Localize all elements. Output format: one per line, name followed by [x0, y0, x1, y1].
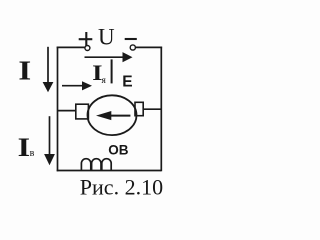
wire: top-left rail from frame corner to + terminal [57, 46, 85, 48]
svg-text:в: в [30, 148, 35, 159]
svg-text:E: E [122, 73, 132, 90]
wire: top-right rail from - terminal to right corner [135, 46, 162, 48]
svg-text:I: I [18, 133, 30, 162]
svg-text:ОВ: ОВ [108, 142, 129, 157]
wire: bottom rail [57, 170, 162, 172]
svg-text:I: I [18, 56, 31, 86]
wire: right brush to right rail [143, 108, 161, 110]
brush left (rect) [76, 104, 89, 119]
armature rotation arrow (left) [96, 111, 130, 120]
terminal - (circle) [130, 45, 135, 50]
annotation arrow into armature (right) [62, 81, 92, 90]
armature M (ellipse) [88, 95, 137, 135]
current arrow I_v (down, lower left) [44, 116, 55, 165]
current arrow I_ya (right, below U) [85, 52, 133, 62]
wire: left brush to left rail [58, 110, 76, 112]
wire: left rail [57, 47, 59, 172]
svg-text:Рис. 2.10: Рис. 2.10 [80, 175, 163, 200]
EMF bar [111, 59, 113, 83]
label - [125, 38, 137, 40]
wire: right rail [160, 47, 162, 172]
svg-text:U: U [98, 24, 115, 49]
label + [79, 32, 93, 46]
inductor OV (field winding, 3 loops) [81, 159, 111, 171]
current arrow I (down, left side) [43, 47, 54, 93]
terminal + (circle) [85, 46, 90, 51]
svg-text:я: я [102, 76, 107, 86]
brush right (rect) [135, 102, 143, 115]
